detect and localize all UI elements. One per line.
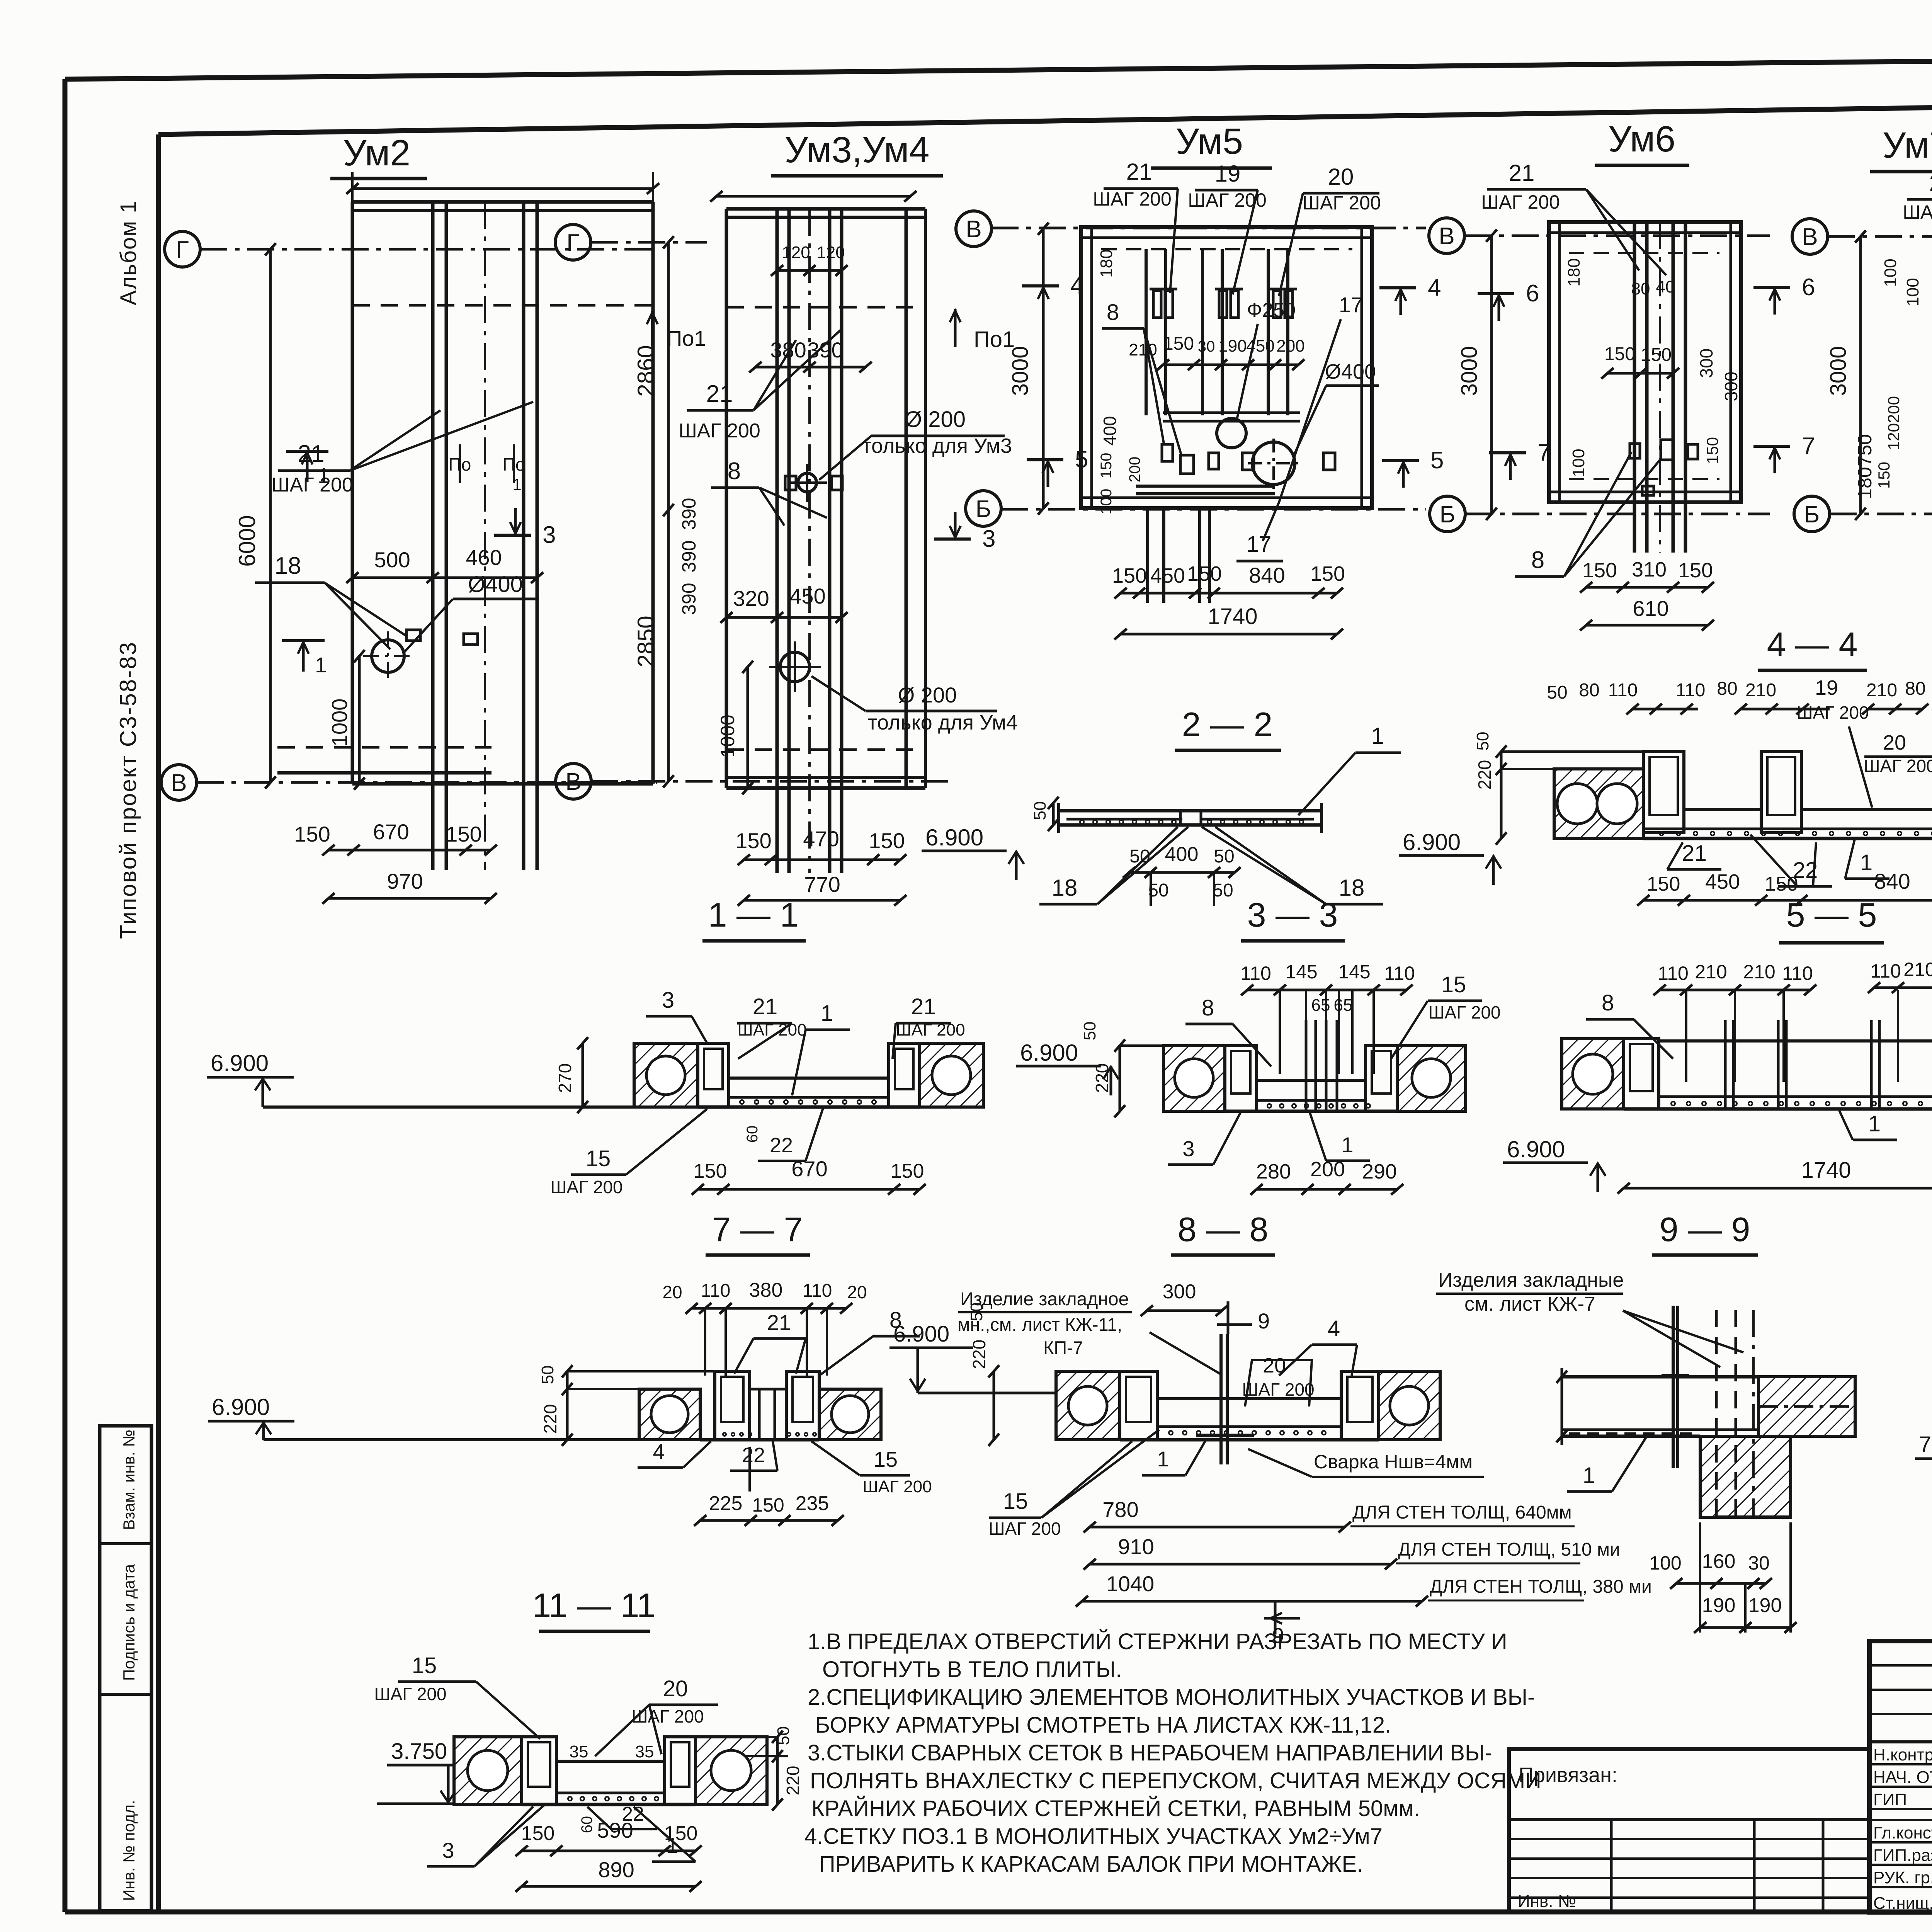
masonry right (7-7) xyxy=(819,1389,881,1440)
svg-text:390: 390 xyxy=(678,540,700,572)
svg-text:6.900: 6.900 xyxy=(925,825,983,850)
svg-text:Г: Г xyxy=(176,236,189,263)
svg-text:15: 15 xyxy=(586,1146,611,1171)
slab band (9-9) xyxy=(1562,1375,1759,1379)
svg-text:5: 5 xyxy=(1075,446,1088,473)
svg-text:21: 21 xyxy=(1126,159,1152,185)
svg-text:Ст.нищ.: Ст.нищ. xyxy=(1873,1894,1932,1913)
svg-text:40: 40 xyxy=(1656,277,1675,296)
svg-text:35: 35 xyxy=(570,1742,588,1761)
svg-text:50: 50 xyxy=(1080,1022,1099,1041)
svg-text:5: 5 xyxy=(1430,447,1444,474)
svg-text:17: 17 xyxy=(1247,532,1272,557)
svg-text:ШАГ 200: ШАГ 200 xyxy=(1481,191,1560,213)
svg-text:3: 3 xyxy=(442,1838,454,1862)
svg-text:8: 8 xyxy=(1107,300,1119,325)
svg-text:3: 3 xyxy=(982,526,995,552)
svg-text:150: 150 xyxy=(1098,453,1115,479)
svg-text:ДЛЯ СТЕН ТОЛЩ, 380 ми: ДЛЯ СТЕН ТОЛЩ, 380 ми xyxy=(1430,1577,1652,1597)
svg-text:210: 210 xyxy=(1695,961,1727,983)
bottom dims (3-3) xyxy=(1257,1188,1397,1191)
svg-text:380: 380 xyxy=(770,338,806,362)
svg-text:Ø400: Ø400 xyxy=(468,572,523,597)
svg-text:190: 190 xyxy=(1702,1594,1736,1617)
axis V (Um7) xyxy=(1792,219,1828,254)
svg-text:Г: Г xyxy=(566,230,580,256)
svg-text:20: 20 xyxy=(662,1282,682,1302)
svg-text:110: 110 xyxy=(1676,680,1706,701)
svg-text:235: 235 xyxy=(796,1492,829,1515)
svg-text:6.900: 6.900 xyxy=(1507,1136,1565,1162)
svg-text:30: 30 xyxy=(1198,338,1215,355)
svg-text:1040: 1040 xyxy=(1106,1571,1155,1596)
svg-text:В: В xyxy=(1802,224,1818,250)
embed plate vertical (9-9) xyxy=(1672,1306,1675,1468)
dims 50 400 50 (2-2) xyxy=(1129,871,1235,874)
masonry left (1-1) xyxy=(634,1043,698,1107)
svg-text:4: 4 xyxy=(1428,274,1441,301)
svg-text:3.750: 3.750 xyxy=(391,1739,447,1764)
beam strips Um6 xyxy=(1633,222,1636,553)
svg-text:1000: 1000 xyxy=(717,714,738,757)
svg-text:КП-7: КП-7 xyxy=(1043,1337,1083,1358)
axis G (Um2) xyxy=(165,231,200,267)
svg-text:4 — 4: 4 — 4 xyxy=(1767,625,1858,663)
svg-text:ШАГ 200: ШАГ 200 xyxy=(862,1477,932,1496)
interior beam strips Um5 xyxy=(1145,249,1148,415)
svg-text:2 — 2: 2 — 2 xyxy=(1182,705,1273,743)
svg-text:390: 390 xyxy=(678,583,700,615)
svg-text:100: 100 xyxy=(1903,278,1922,306)
svg-text:110: 110 xyxy=(1870,960,1901,982)
svg-text:150: 150 xyxy=(446,822,481,846)
bottom dims Um3 xyxy=(744,859,900,861)
svg-text:220: 220 xyxy=(540,1404,560,1434)
top stirrup hooks Um5 xyxy=(1153,291,1161,318)
svg-text:11 — 11: 11 — 11 xyxy=(532,1586,656,1624)
bottom dims Um5 xyxy=(1121,592,1337,595)
masonry left (11-11) xyxy=(454,1737,522,1804)
svg-text:15: 15 xyxy=(874,1447,898,1471)
axis V (Um5) xyxy=(956,211,992,247)
svg-text:Б: Б xyxy=(1440,501,1456,528)
svg-text:20: 20 xyxy=(1883,731,1906,754)
svg-text:310: 310 xyxy=(1632,558,1667,581)
svg-text:65: 65 xyxy=(1334,996,1353,1015)
title block left table xyxy=(1869,1664,1932,1667)
stirrup boxes (8-8) xyxy=(1120,1371,1157,1440)
svg-text:Б: Б xyxy=(1804,501,1820,528)
svg-text:21: 21 xyxy=(1509,160,1535,186)
svg-text:80: 80 xyxy=(1579,680,1599,701)
svg-text:150: 150 xyxy=(1582,559,1617,582)
svg-text:200: 200 xyxy=(1276,337,1304,355)
svg-text:9: 9 xyxy=(1258,1309,1270,1333)
svg-text:1.В ПРЕДЕЛАХ ОТВЕРСТИЙ СТЕРЖНИ: 1.В ПРЕДЕЛАХ ОТВЕРСТИЙ СТЕРЖНИ РАЗРЕЗАТЬ… xyxy=(808,1629,1507,1654)
svg-text:15: 15 xyxy=(1003,1489,1028,1514)
svg-text:150: 150 xyxy=(1765,873,1798,895)
slab + boxes (7-7) xyxy=(715,1371,750,1440)
svg-text:ДЛЯ СТЕН ТОЛЩ, 510 ми: ДЛЯ СТЕН ТОЛЩ, 510 ми xyxy=(1398,1539,1620,1560)
svg-text:100: 100 xyxy=(1098,489,1115,515)
svg-text:100: 100 xyxy=(1881,259,1900,287)
svg-text:Ум2: Ум2 xyxy=(343,133,410,173)
stirrup boxes (3-3) xyxy=(1225,1046,1257,1111)
privyazan block xyxy=(1509,1749,1869,1912)
plate outline Um5 xyxy=(1081,227,1372,508)
svg-text:150: 150 xyxy=(1112,564,1147,587)
svg-text:300: 300 xyxy=(1721,372,1741,401)
opening O200 Um4 xyxy=(780,652,810,682)
vertical dim 6000 Um2 xyxy=(269,249,272,782)
svg-text:110: 110 xyxy=(701,1281,731,1301)
beam strips Um2 xyxy=(431,202,435,870)
masonry left (3-3) xyxy=(1163,1046,1225,1111)
svg-text:180: 180 xyxy=(1097,249,1116,277)
svg-text:390: 390 xyxy=(678,498,700,530)
beam strips Um3 xyxy=(776,209,779,873)
svg-text:6: 6 xyxy=(1526,280,1539,307)
stirrup boxes (5-5) xyxy=(1624,1039,1659,1109)
svg-text:150: 150 xyxy=(1875,462,1893,489)
svg-text:6.900: 6.900 xyxy=(1020,1040,1078,1066)
svg-text:670: 670 xyxy=(791,1156,827,1181)
svg-text:3: 3 xyxy=(662,988,674,1013)
title block frame xyxy=(1869,1641,1932,1912)
svg-text:Альбом 1: Альбом 1 xyxy=(116,200,141,305)
svg-text:см. лист КЖ-7: см. лист КЖ-7 xyxy=(1464,1293,1595,1315)
svg-text:110: 110 xyxy=(1384,963,1415,984)
svg-text:20: 20 xyxy=(663,1676,688,1701)
svg-text:110: 110 xyxy=(1240,963,1271,984)
svg-text:4: 4 xyxy=(1328,1316,1340,1341)
svg-text:3000: 3000 xyxy=(1826,346,1851,396)
svg-text:110: 110 xyxy=(1782,963,1813,984)
svg-text:Ø 200: Ø 200 xyxy=(905,407,966,432)
svg-text:150: 150 xyxy=(294,822,330,846)
svg-text:21: 21 xyxy=(706,381,733,407)
slab recess (8-8) xyxy=(1157,1397,1341,1400)
svg-text:6: 6 xyxy=(1802,274,1815,301)
svg-text:БОРКУ АРМАТУРЫ СМОТРЕТЬ Н: БОРКУ АРМАТУРЫ СМОТРЕТЬ НА ЛИСТАХ КЖ-11,… xyxy=(815,1713,1391,1738)
svg-text:120: 120 xyxy=(816,243,845,262)
svg-text:2.СПЕЦИФИКАЦИЮ ЭЛЕМЕНТОВ МОНОЛ: 2.СПЕЦИФИКАЦИЮ ЭЛЕМЕНТОВ МОНОЛИТНЫХ УЧАС… xyxy=(808,1685,1535,1710)
svg-text:22: 22 xyxy=(742,1444,765,1467)
vertical dim 1000 Um4 xyxy=(747,667,749,788)
dim table (8-8) xyxy=(1090,1526,1345,1529)
svg-text:Ø 200: Ø 200 xyxy=(898,683,957,707)
svg-text:450: 450 xyxy=(789,584,825,608)
svg-text:290: 290 xyxy=(1362,1160,1397,1183)
masonry right (3-3) xyxy=(1397,1046,1466,1111)
svg-text:8: 8 xyxy=(1531,547,1544,573)
svg-text:21: 21 xyxy=(767,1310,791,1335)
svg-text:3000: 3000 xyxy=(1457,346,1482,396)
svg-text:20: 20 xyxy=(1929,170,1932,196)
svg-text:150: 150 xyxy=(1187,562,1222,585)
svg-text:110: 110 xyxy=(803,1281,832,1301)
svg-text:1000: 1000 xyxy=(327,699,352,747)
vert dim 3000 Um5 xyxy=(1042,229,1045,509)
svg-text:80: 80 xyxy=(1717,679,1737,699)
svg-text:19: 19 xyxy=(1815,676,1838,699)
svg-text:РУК. гр.: РУК. гр. xyxy=(1873,1868,1932,1887)
svg-text:4: 4 xyxy=(653,1439,665,1464)
vert dim 3000 Um7 xyxy=(1859,236,1862,514)
svg-text:500: 500 xyxy=(374,548,410,572)
svg-text:220: 220 xyxy=(783,1766,803,1796)
top dims (3-3) xyxy=(1247,989,1406,992)
center line Um3 xyxy=(808,209,811,873)
svg-text:180: 180 xyxy=(1565,258,1583,286)
svg-text:7: 7 xyxy=(1537,439,1551,466)
wall below (9-9) xyxy=(1700,1436,1791,1517)
top dim Um3 xyxy=(716,195,910,198)
slab recess (5-5) xyxy=(1659,1039,1932,1043)
slab recess (1-1) xyxy=(728,1077,889,1080)
svg-text:Привязан:: Привязан: xyxy=(1519,1764,1617,1787)
svg-text:910: 910 xyxy=(1118,1534,1154,1559)
svg-text:20: 20 xyxy=(1263,1354,1286,1377)
svg-text:Ø400: Ø400 xyxy=(1325,360,1376,383)
masonry left (8-8) xyxy=(1056,1371,1120,1440)
svg-text:50: 50 xyxy=(1031,801,1049,820)
svg-text:7.000: 7.000 xyxy=(1919,1432,1932,1457)
svg-text:8 — 8: 8 — 8 xyxy=(1178,1210,1269,1248)
svg-text:160: 160 xyxy=(1702,1550,1736,1573)
svg-text:670: 670 xyxy=(373,820,409,844)
svg-text:Сварка Ншв=4мм: Сварка Ншв=4мм xyxy=(1314,1451,1473,1473)
plate outline Um6 xyxy=(1549,222,1741,502)
svg-text:ПОЛНЯТЬ ВНАХЛЕСТКУ С ПЕРЕПУСКО: ПОЛНЯТЬ ВНАХЛЕСТКУ С ПЕРЕПУСКОМ, СЧИТАЯ … xyxy=(810,1768,1541,1793)
svg-text:В: В xyxy=(171,770,187,796)
svg-text:300: 300 xyxy=(1163,1281,1196,1303)
svg-text:220: 220 xyxy=(1092,1063,1112,1093)
plate outline Um3 xyxy=(726,207,925,211)
svg-text:1: 1 xyxy=(1868,1111,1881,1136)
beams below plate Um5 xyxy=(1146,508,1149,603)
svg-text:Н.контр-: Н.контр- xyxy=(1873,1745,1932,1764)
svg-text:970: 970 xyxy=(387,869,423,893)
slab recess (4-4) xyxy=(1684,808,1761,811)
svg-text:КРАЙНИХ РАБОЧИХ СТЕРЖНЕЙ СЕТ: КРАЙНИХ РАБОЧИХ СТЕРЖНЕЙ СЕТКИ, РАВНЫМ 5… xyxy=(811,1796,1420,1821)
svg-text:Ф250: Ф250 xyxy=(1247,299,1296,321)
svg-text:400: 400 xyxy=(1100,416,1120,446)
bottom dims Um6 xyxy=(1586,586,1708,589)
svg-text:1: 1 xyxy=(1157,1447,1169,1471)
svg-text:180: 180 xyxy=(1854,467,1876,499)
svg-text:ШАГ 200: ШАГ 200 xyxy=(1302,192,1381,214)
svg-text:780: 780 xyxy=(1102,1497,1138,1522)
masonry left (4-4) xyxy=(1554,769,1643,838)
svg-text:7 — 7: 7 — 7 xyxy=(712,1210,803,1248)
svg-text:ОТОГНУТЬ В ТЕЛО ПЛИТЫ.: ОТОГНУТЬ В ТЕЛО ПЛИТЫ. xyxy=(822,1657,1122,1682)
axis B (Um6) xyxy=(1430,496,1465,532)
svg-text:50: 50 xyxy=(1129,846,1150,867)
svg-text:145: 145 xyxy=(1285,961,1317,983)
top dims (7-7) xyxy=(692,1307,846,1310)
svg-text:Ум6: Ум6 xyxy=(1608,119,1675,160)
svg-text:ШАГ 200: ШАГ 200 xyxy=(1796,702,1869,723)
bottom dim 1740 (5-5) xyxy=(1624,1187,1932,1190)
svg-text:20: 20 xyxy=(847,1282,867,1302)
center bars (3-3) xyxy=(1305,1020,1308,1111)
section 2-2 slab xyxy=(1059,809,1321,813)
svg-text:50: 50 xyxy=(538,1366,557,1384)
axis V (Um2) xyxy=(161,765,197,800)
svg-text:3000: 3000 xyxy=(1008,346,1033,396)
svg-text:21: 21 xyxy=(1682,841,1707,866)
top dims (4-4) xyxy=(1633,708,1698,711)
svg-text:110: 110 xyxy=(1608,680,1638,701)
svg-text:50: 50 xyxy=(1473,732,1492,751)
svg-text:35: 35 xyxy=(635,1742,654,1761)
svg-text:1: 1 xyxy=(318,463,330,488)
svg-text:20: 20 xyxy=(1328,164,1354,190)
svg-text:только для Ум3: только для Ум3 xyxy=(862,434,1012,457)
svg-text:50: 50 xyxy=(967,1303,986,1321)
vertical dims 2860 2850 Um3 xyxy=(667,242,670,781)
masonry right (1-1) xyxy=(920,1043,983,1107)
bottom dims (7-7) xyxy=(700,1519,838,1522)
svg-text:5 — 5: 5 — 5 xyxy=(1786,896,1877,934)
bottom dims (1-1) xyxy=(698,1188,920,1191)
svg-text:100: 100 xyxy=(1649,1552,1681,1574)
svg-text:Взам. инв. №: Взам. инв. № xyxy=(120,1430,138,1530)
svg-text:ШАГ 200: ШАГ 200 xyxy=(271,474,353,496)
svg-text:210: 210 xyxy=(1743,961,1775,983)
svg-text:ПРИВАРИТЬ К КАРКАСАМ БАЛОК: ПРИВАРИТЬ К КАРКАСАМ БАЛОК ПРИ МОНТАЖЕ. xyxy=(819,1852,1363,1877)
svg-text:ШАГ 200: ШАГ 200 xyxy=(1903,201,1932,223)
svg-text:18: 18 xyxy=(275,553,301,579)
svg-text:8: 8 xyxy=(1202,995,1214,1020)
svg-text:В: В xyxy=(966,216,981,243)
svg-text:470: 470 xyxy=(803,827,839,851)
svg-text:3.СТЫКИ СВАРНЫХ СЕТОК В НЕР: 3.СТЫКИ СВАРНЫХ СЕТОК В НЕРАБОЧЕМ НАПРАВ… xyxy=(808,1740,1492,1765)
section mark 3 near Um3 xyxy=(494,534,531,537)
svg-text:Ум3,Ум4: Ум3,Ум4 xyxy=(785,129,930,170)
stirrup boxes (4-4) xyxy=(1643,752,1684,833)
svg-text:80: 80 xyxy=(1905,679,1925,699)
svg-text:1 — 1: 1 — 1 xyxy=(708,896,799,934)
masonry left (5-5) xyxy=(1562,1039,1624,1109)
svg-text:590: 590 xyxy=(597,1818,633,1842)
svg-text:270: 270 xyxy=(555,1063,575,1093)
axis G (Um3) xyxy=(555,224,591,260)
svg-text:200: 200 xyxy=(1126,457,1143,483)
sheet inner frame xyxy=(158,96,1932,134)
svg-text:В: В xyxy=(1439,223,1454,250)
svg-text:80: 80 xyxy=(1631,279,1650,298)
svg-text:840: 840 xyxy=(1249,563,1285,587)
svg-text:150: 150 xyxy=(1163,333,1194,354)
svg-text:150: 150 xyxy=(891,1160,924,1182)
sheet outer border xyxy=(65,53,1932,79)
svg-text:1: 1 xyxy=(315,653,327,677)
axis B (Um5) xyxy=(966,491,1001,526)
svg-text:120: 120 xyxy=(1884,423,1903,450)
svg-text:150: 150 xyxy=(1604,344,1635,364)
svg-text:ШАГ 200: ШАГ 200 xyxy=(896,1020,965,1039)
axis B (Um7) xyxy=(1794,496,1830,532)
svg-text:Гл.констр: Гл.констр xyxy=(1873,1823,1932,1842)
svg-text:ГИП: ГИП xyxy=(1873,1790,1907,1809)
bottom dims (4-4) xyxy=(1643,899,1932,902)
top dim line Um2 xyxy=(352,187,653,190)
svg-text:только для Ум4: только для Ум4 xyxy=(868,711,1018,734)
svg-text:210: 210 xyxy=(1866,680,1897,701)
center bar pairs (5-5) xyxy=(1724,1020,1727,1109)
stirrup boxes (11-11) xyxy=(522,1737,556,1804)
svg-text:100: 100 xyxy=(1569,449,1588,477)
svg-text:150: 150 xyxy=(752,1494,784,1516)
column dashed lines (9-9) xyxy=(1715,1310,1718,1517)
svg-text:6.900: 6.900 xyxy=(893,1321,949,1347)
svg-text:60: 60 xyxy=(744,1126,761,1143)
svg-text:120: 120 xyxy=(782,243,810,262)
svg-text:НАЧ. ОТД: НАЧ. ОТД xyxy=(1873,1768,1932,1787)
svg-text:225: 225 xyxy=(709,1492,743,1515)
svg-text:Подпись и дата: Подпись и дата xyxy=(120,1564,138,1681)
svg-text:150: 150 xyxy=(1310,562,1345,585)
svg-text:9 — 9: 9 — 9 xyxy=(1660,1210,1750,1248)
svg-text:750: 750 xyxy=(1854,434,1876,466)
svg-text:150: 150 xyxy=(735,828,771,853)
svg-text:ШАГ 200: ШАГ 200 xyxy=(1093,188,1172,210)
svg-text:3: 3 xyxy=(543,522,556,548)
svg-text:150: 150 xyxy=(1647,873,1680,895)
section marks Um5 xyxy=(1022,284,1059,287)
svg-text:ШАГ 200: ШАГ 200 xyxy=(374,1684,446,1704)
svg-text:450: 450 xyxy=(1150,564,1185,587)
svg-text:50: 50 xyxy=(1214,846,1234,867)
svg-text:6.900: 6.900 xyxy=(212,1394,270,1420)
axis V (Um6) xyxy=(1429,218,1464,253)
svg-text:15: 15 xyxy=(1441,972,1466,997)
svg-text:150: 150 xyxy=(869,828,905,853)
svg-text:17: 17 xyxy=(1339,293,1363,317)
svg-text:110: 110 xyxy=(1658,963,1689,984)
svg-text:Ум7: Ум7 xyxy=(1883,125,1932,166)
svg-text:390: 390 xyxy=(807,338,843,362)
svg-text:450: 450 xyxy=(1705,870,1740,893)
svg-text:200: 200 xyxy=(1310,1158,1345,1181)
svg-text:18: 18 xyxy=(1339,875,1365,901)
mark 9 bottom (8-8) xyxy=(1274,1600,1277,1634)
top dims (5-5) xyxy=(1660,989,1810,992)
svg-text:220: 220 xyxy=(969,1340,989,1369)
svg-text:280: 280 xyxy=(1256,1160,1291,1183)
svg-text:18: 18 xyxy=(1052,875,1078,901)
slab recess (11-11) xyxy=(556,1760,665,1763)
svg-text:1740: 1740 xyxy=(1207,604,1257,629)
svg-text:1: 1 xyxy=(1371,723,1384,749)
masonry right (11-11) xyxy=(696,1737,767,1804)
svg-text:220: 220 xyxy=(1475,760,1495,790)
svg-text:21: 21 xyxy=(753,994,778,1019)
svg-text:6000: 6000 xyxy=(234,515,260,566)
svg-text:150: 150 xyxy=(1703,437,1721,464)
svg-text:890: 890 xyxy=(598,1857,634,1882)
masonry right (8-8) xyxy=(1379,1371,1440,1440)
stirrup boxes (1-1) xyxy=(698,1043,729,1107)
opening O200 Um3 xyxy=(798,473,816,492)
section marks Um6 xyxy=(1478,292,1514,295)
svg-text:Типовой проект С3-58-83: Типовой проект С3-58-83 xyxy=(115,641,141,939)
svg-text:65: 65 xyxy=(1311,996,1330,1015)
svg-text:2860: 2860 xyxy=(633,345,659,396)
svg-text:6.900: 6.900 xyxy=(1403,829,1461,855)
